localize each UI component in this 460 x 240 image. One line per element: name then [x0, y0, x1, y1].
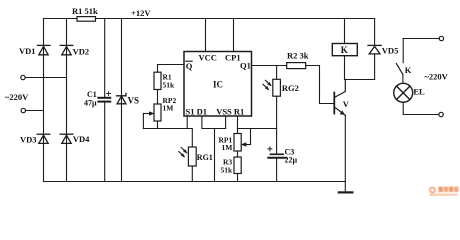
label VCC — [199, 53, 217, 63]
label IC — [213, 80, 223, 90]
label RG1 — [197, 153, 213, 162]
switch K contact — [396, 64, 403, 84]
wire S1 pin — [186, 116, 188, 129]
label C3 22u — [285, 148, 298, 165]
label RP1 1M — [219, 135, 233, 152]
wire node R1pin to RG2 column — [238, 128, 277, 130]
zener VS — [117, 19, 127, 182]
label RP2 1M — [163, 96, 177, 113]
wire CP1 pin — [233, 19, 235, 52]
lamp EL — [394, 83, 413, 102]
wire top +12V rail — [44, 18, 375, 20]
wire Qbar branch — [158, 65, 185, 73]
wire VSS to ground rail — [214, 129, 216, 182]
label CP1 — [225, 53, 241, 63]
wire RP1 to R3 — [237, 151, 239, 157]
label S1 D1 — [186, 106, 208, 116]
label ~220V right — [425, 72, 449, 82]
svg-text:47µ: 47µ — [84, 98, 97, 107]
svg-text:V: V — [343, 99, 350, 109]
svg-text:RG1: RG1 — [197, 153, 213, 162]
wire D1-VSS tie — [202, 116, 226, 129]
svg-text:RG2: RG2 — [282, 83, 299, 93]
capacitor C1 47u — [98, 19, 110, 182]
wire RP2/S1/RG1 node — [143, 121, 192, 129]
label K relay — [341, 45, 348, 55]
label ~220V left — [5, 92, 29, 102]
wire bottom ground rail — [44, 181, 346, 183]
photoresistor RG2 — [263, 66, 280, 154]
terminal lamp circuit top — [403, 36, 443, 62]
wire VD5 bottom link — [345, 79, 375, 81]
svg-text:VSS R1: VSS R1 — [216, 106, 244, 116]
svg-text:CP1: CP1 — [225, 53, 241, 63]
svg-text:IC: IC — [213, 80, 223, 90]
svg-text:R2 3k: R2 3k — [287, 51, 309, 61]
label VD4 — [73, 134, 90, 144]
svg-text:VD3: VD3 — [20, 135, 37, 145]
diode VD3 — [37, 134, 50, 143]
potentiometer RP1 1M — [234, 134, 241, 152]
svg-text:R1 51k: R1 51k — [72, 6, 98, 16]
capacitor C3 22u — [268, 147, 286, 182]
svg-text:1M: 1M — [163, 103, 174, 112]
label +12V — [131, 8, 151, 18]
svg-text:51k: 51k — [221, 166, 234, 175]
svg-text:VD5: VD5 — [382, 46, 399, 56]
wire R3 to rail — [237, 174, 239, 182]
label R2 3k — [287, 51, 309, 61]
label C1 47u — [84, 90, 97, 107]
diode VD4 — [60, 134, 73, 143]
svg-text:51k: 51k — [163, 81, 176, 90]
wire VCC pin — [205, 19, 207, 52]
svg-text:VS: VS — [128, 96, 140, 106]
wire Q1 output — [252, 65, 287, 67]
svg-text:VD4: VD4 — [73, 134, 90, 144]
label VD1 — [19, 46, 36, 56]
svg-text:VCC: VCC — [199, 53, 217, 63]
svg-text:Q1: Q1 — [240, 61, 251, 71]
label VD5 — [382, 46, 399, 56]
label VS — [128, 96, 140, 106]
label VD3 — [20, 135, 37, 145]
label Qbar — [186, 61, 193, 71]
watermark logo — [429, 187, 458, 196]
label R1 51k vertical — [163, 73, 176, 90]
svg-text:1M: 1M — [222, 143, 233, 152]
transistor V — [334, 80, 345, 191]
svg-text:K: K — [341, 45, 348, 55]
wire left bridge column 2 — [66, 19, 68, 182]
label RG2 — [282, 83, 299, 93]
wire R1 to RP2 — [157, 90, 159, 105]
svg-text:~220V: ~220V — [425, 72, 449, 82]
terminal AC input top — [21, 75, 67, 79]
label EL — [413, 86, 425, 96]
RP1 wiper arm — [241, 129, 250, 147]
label R1 51k — [72, 6, 98, 16]
photoresistor RG1 — [179, 129, 196, 182]
wire left bridge column 1 — [43, 19, 45, 182]
label V — [343, 99, 350, 109]
label R3 51k — [221, 158, 234, 175]
wire lamp bottom — [403, 102, 439, 114]
RP2 wiper arm — [143, 112, 154, 129]
diode VD1 — [38, 45, 51, 54]
svg-text:Q: Q — [186, 61, 193, 71]
svg-text:EL: EL — [413, 86, 425, 96]
svg-text:S1 D1: S1 D1 — [186, 106, 208, 116]
terminal AC input bottom — [21, 108, 43, 112]
diode VD5 — [368, 19, 381, 80]
terminal lamp circuit bottom — [439, 112, 443, 116]
resistor R1 51k (top) — [77, 17, 96, 22]
resistor R1 51k (vertical) — [154, 72, 161, 89]
wire R2 to base — [306, 66, 334, 104]
relay coil K — [332, 19, 357, 80]
svg-text:+12V: +12V — [131, 8, 151, 18]
svg-text:VD1: VD1 — [19, 46, 36, 56]
label VSS R1 — [216, 106, 244, 116]
svg-text:22µ: 22µ — [285, 156, 298, 165]
label VD2 — [73, 47, 90, 57]
resistor R2 3k — [287, 63, 306, 69]
label Q1 — [240, 61, 251, 71]
svg-text:K: K — [405, 65, 412, 75]
wire R1 pin column — [237, 116, 239, 134]
svg-text:VD2: VD2 — [73, 47, 90, 57]
potentiometer RP2 1M — [154, 104, 161, 121]
resistor R3 51k — [234, 157, 241, 174]
ground — [339, 191, 353, 193]
diode VD2 — [60, 45, 73, 54]
op-amp U1 IC box — [184, 52, 252, 117]
label K switch — [405, 65, 412, 75]
svg-text:~220V: ~220V — [5, 92, 29, 102]
